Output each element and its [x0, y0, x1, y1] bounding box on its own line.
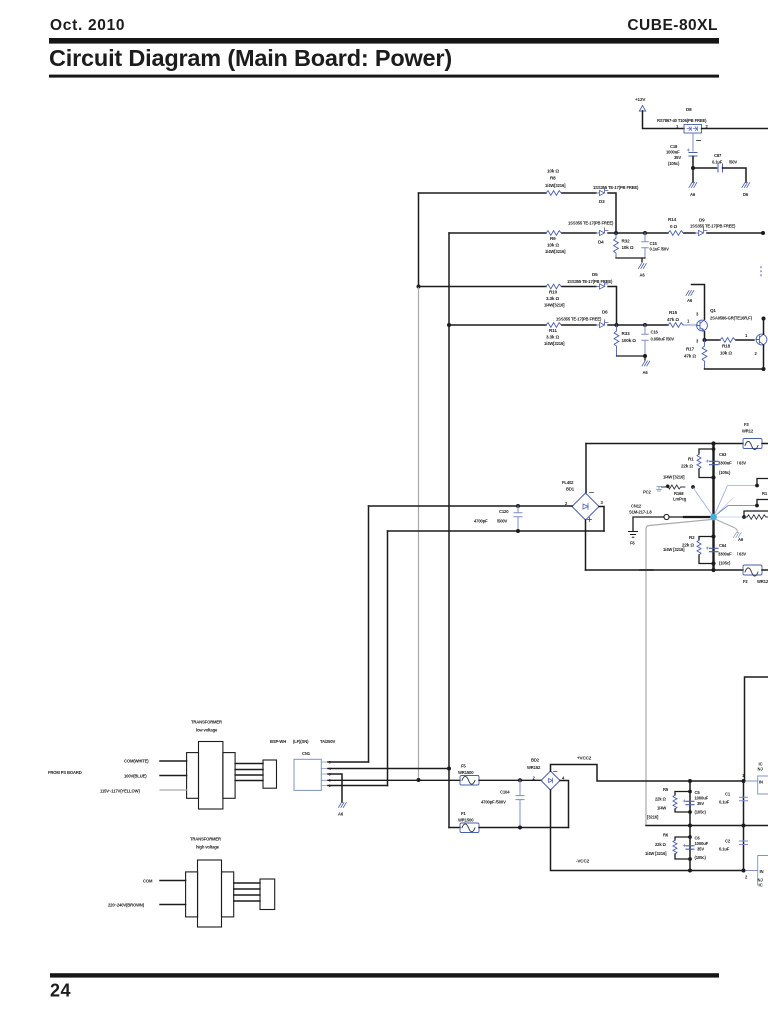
svg-text:1000uF: 1000uF	[666, 150, 680, 155]
wire vertical x449	[448, 233, 450, 828]
wire bottom bus to F2	[586, 569, 744, 571]
svg-text:low voltage: low voltage	[196, 728, 218, 733]
svg-text:C5: C5	[695, 790, 701, 795]
wire row3	[419, 286, 547, 288]
node x690 top	[688, 779, 692, 783]
svg-text:CN1: CN1	[302, 751, 311, 756]
resistor R10 3.3k	[544, 284, 565, 307]
resistor R18 10k	[720, 338, 735, 356]
node R168 left	[666, 485, 670, 489]
capacitor C63 3300uF	[706, 452, 746, 475]
svg-text:/500V: /500V	[497, 519, 508, 524]
svg-text:1/4W[3216]: 1/4W[3216]	[545, 249, 566, 254]
node R1 top	[712, 447, 716, 451]
svg-text:TRANSFORMER: TRANSFORMER	[191, 720, 222, 725]
svg-text:3: 3	[696, 339, 699, 344]
svg-text:A6: A6	[687, 298, 693, 303]
svg-text:R1: R1	[762, 491, 768, 496]
svg-text:IN: IN	[760, 869, 764, 874]
node x743 top	[742, 779, 746, 783]
transformer T2 high voltage	[186, 837, 234, 928]
svg-text:C15: C15	[650, 241, 658, 246]
svg-text:RS7867-40 T106(PB FREE): RS7867-40 T106(PB FREE)	[657, 118, 707, 123]
capacitor C104 4700pF	[481, 780, 524, 827]
wire R11 to D6	[562, 324, 596, 326]
svg-text:3.3k Ω: 3.3k Ω	[546, 335, 559, 340]
resistor R8 10k	[545, 169, 566, 196]
svg-text:F5: F5	[461, 764, 466, 769]
wire R15 to Q1 base	[684, 324, 697, 326]
node ray2	[755, 504, 759, 508]
svg-text:BD1: BD1	[566, 487, 575, 492]
svg-text:WR12: WR12	[742, 429, 754, 434]
svg-text:WR1500: WR1500	[458, 770, 474, 775]
wire junction to C87	[693, 167, 717, 169]
svg-text:IC: IC	[759, 883, 763, 888]
capacitor C16 0.056uF	[642, 325, 675, 356]
svg-text:F3: F3	[744, 422, 749, 427]
svg-text:47k Ω: 47k Ω	[684, 354, 696, 359]
svg-text:1SS355 TE-17(PB FREE): 1SS355 TE-17(PB FREE)	[568, 221, 614, 226]
svg-text:high voltage: high voltage	[196, 845, 220, 850]
svg-text:3: 3	[696, 312, 699, 317]
node Q2 top	[762, 317, 766, 321]
wires T1 secondary	[235, 764, 263, 781]
wire CN1 pin1 to left drop	[328, 761, 369, 763]
node C120 bottom	[516, 529, 520, 533]
svg-text:Oct. 2010: Oct. 2010	[50, 17, 125, 34]
node +12V	[635, 97, 646, 111]
node row3 tap	[417, 285, 421, 289]
svg-text:R8: R8	[550, 176, 556, 181]
svg-text:D8: D8	[686, 107, 692, 112]
svg-text:10k Ω: 10k Ω	[622, 245, 634, 250]
ground A6 (gray)	[734, 533, 744, 543]
resistor R32 10k (vertical)	[614, 233, 634, 258]
svg-text:R32: R32	[622, 239, 631, 244]
node rail end	[762, 367, 766, 371]
svg-text:R17: R17	[686, 347, 695, 352]
svg-text:IN: IN	[759, 780, 763, 785]
svg-text:C6: C6	[695, 836, 701, 841]
capacitor C6 1000uF	[683, 836, 709, 861]
svg-text:FL402: FL402	[562, 480, 574, 485]
svg-text:Q1: Q1	[710, 308, 716, 313]
svg-text:1/4W [3216]: 1/4W [3216]	[645, 851, 667, 856]
wire row1 (left corner, to R8)	[419, 192, 547, 194]
wire D5 corner down	[608, 287, 617, 326]
fuse F5 WR1500	[458, 764, 479, 786]
svg-text:BD2: BD2	[531, 758, 540, 763]
wire F2 to edge	[762, 569, 768, 571]
svg-text:(105c): (105c)	[695, 855, 707, 860]
svg-text:0 Ω: 0 Ω	[670, 224, 678, 229]
wire center thick bus	[712, 444, 714, 571]
IC box (edge, +VCC2 regulator)	[758, 776, 768, 794]
svg-text:(LF)(SN): (LF)(SN)	[293, 739, 309, 744]
svg-text:F6: F6	[630, 541, 635, 546]
svg-text:+VCC2: +VCC2	[577, 756, 592, 761]
svg-text:1/4W[3216]: 1/4W[3216]	[544, 341, 565, 346]
connector CN12 S1M-217-1.8	[629, 504, 669, 520]
svg-text:100V(BLUE): 100V(BLUE)	[124, 774, 147, 779]
svg-text:LmPcg: LmPcg	[673, 497, 687, 502]
ground F6	[629, 532, 638, 546]
svg-text:WR12: WR12	[757, 579, 768, 584]
wire bus x743	[743, 781, 745, 871]
svg-text:C63: C63	[719, 452, 727, 457]
resistor R9 10k	[545, 231, 566, 254]
wire vertical x419 upper	[418, 193, 420, 287]
svg-text:(105c): (105c)	[719, 561, 731, 566]
svg-text:F2: F2	[743, 579, 748, 584]
wire C18 to junction	[692, 157, 694, 169]
svg-text:0.056uF /50V: 0.056uF /50V	[651, 337, 675, 342]
wire node to C16 node	[617, 324, 646, 326]
svg-text:1: 1	[687, 319, 690, 324]
node x743 bottom	[742, 869, 746, 873]
svg-text:A6: A6	[643, 370, 649, 375]
resistor R11 3.3k	[544, 323, 565, 346]
node Q1 emitter	[703, 338, 707, 342]
wire to R14	[645, 232, 668, 234]
wire bridge pin3	[599, 507, 604, 532]
svg-text:1000uF: 1000uF	[695, 841, 709, 846]
wire C120 bottom rail	[388, 530, 605, 532]
resistor R5 22k	[647, 787, 690, 820]
ground A6 row4	[642, 356, 650, 375]
node row1/row2	[614, 231, 618, 235]
node C120 top	[516, 504, 520, 508]
svg-text:115V~117V(YELLOW): 115V~117V(YELLOW)	[100, 789, 140, 794]
svg-text:PC2: PC2	[643, 490, 652, 495]
connector housing T1	[263, 760, 277, 788]
svg-text:22k Ω: 22k Ω	[655, 842, 667, 847]
wire gray hub to center-tap drop	[646, 520, 711, 825]
svg-text:35V: 35V	[697, 847, 704, 852]
wire bottom bus repaint at gray crossing	[640, 569, 653, 571]
wire +VCC2 blue tail	[744, 780, 758, 782]
svg-text:35V: 35V	[674, 155, 681, 160]
svg-text:R5: R5	[663, 787, 669, 792]
node x690 bottom	[688, 869, 692, 873]
svg-text:D4: D4	[598, 240, 604, 245]
wire R10 to D5	[562, 286, 596, 288]
svg-text:R14: R14	[668, 217, 677, 222]
node R5 top	[688, 790, 692, 794]
wire top bus to F3	[586, 443, 743, 445]
ground A6 Q1	[686, 291, 694, 304]
svg-text:2SA0586-GR(TE16R,F): 2SA0586-GR(TE16R,F)	[710, 316, 753, 321]
wire gray hub to A6	[716, 520, 738, 533]
node R6 top	[688, 835, 692, 839]
capacitor C87 0.1uF	[712, 153, 737, 172]
net rays (blue) from hub	[693, 486, 757, 518]
svg-text:2: 2	[755, 351, 758, 356]
wire bus x690	[689, 781, 691, 871]
wire row4	[449, 324, 546, 326]
svg-text:CN12: CN12	[631, 504, 642, 509]
svg-text:C16: C16	[651, 330, 659, 335]
wire Q1 emitter to node	[704, 332, 706, 340]
svg-text:1SS355 TE-17(PB FREE): 1SS355 TE-17(PB FREE)	[556, 317, 602, 322]
wire ray2 corner (edge, y499.5)	[757, 500, 768, 506]
svg-text:(105c): (105c)	[719, 470, 731, 475]
svg-text:R10: R10	[549, 290, 558, 295]
node R2 bottom	[711, 561, 715, 565]
svg-text:0.1uF /50V: 0.1uF /50V	[650, 247, 670, 252]
capacitor C5 1000uF	[683, 790, 709, 815]
svg-text:R15: R15	[669, 310, 678, 315]
wire D9 to edge node	[707, 232, 763, 234]
wire R18 to Q2 base	[736, 339, 754, 341]
svg-text:1/4W: 1/4W	[657, 806, 666, 811]
wire bridge bottom to bus	[585, 520, 587, 570]
svg-text:C2: C2	[725, 839, 731, 844]
node R6 bottom	[688, 857, 692, 861]
svg-text:[3216]: [3216]	[647, 815, 659, 820]
ground A6 (top right)	[689, 183, 697, 198]
wire Q1 collector to ground	[692, 285, 705, 320]
fuse F3 WR12	[742, 422, 762, 450]
wire right edge corner to lower bus	[745, 677, 768, 781]
node ray1	[755, 484, 759, 488]
node R1/C63 bottom	[711, 475, 715, 479]
svg-text:R1: R1	[688, 457, 694, 462]
wire R32/C15 commons	[616, 258, 645, 262]
svg-text:C120: C120	[499, 509, 509, 514]
svg-text:10k Ω: 10k Ω	[547, 243, 559, 248]
wire CN1 pin6 to left drop2	[328, 785, 388, 787]
node C104 top	[518, 778, 522, 782]
svg-text:1SS355 TE-17(PB FREE): 1SS355 TE-17(PB FREE)	[567, 279, 613, 284]
svg-text:24: 24	[50, 981, 71, 1001]
svg-text:C18: C18	[670, 144, 678, 149]
resistor R2 22k	[663, 535, 714, 564]
svg-text:4700pF /500V: 4700pF /500V	[481, 800, 506, 805]
capacitor C64 3300uF	[706, 543, 746, 566]
wire left drop2 to CN1 pin5	[387, 531, 389, 786]
wire BD2 pin4 down	[560, 781, 569, 828]
svg-text:/ 63V: / 63V	[737, 461, 746, 466]
svg-text:10k Ω: 10k Ω	[547, 169, 559, 174]
wire x449 corner to F1	[449, 827, 460, 829]
svg-text:COM(WHITE): COM(WHITE)	[124, 759, 149, 764]
IC box (edge, -VCC2 regulator)	[758, 856, 768, 886]
svg-text:R6: R6	[663, 833, 669, 838]
wire vertical x419 gray (115V net)	[418, 287, 420, 781]
svg-text:1/4W [3216]: 1/4W [3216]	[663, 547, 685, 552]
svg-text:C104: C104	[500, 790, 510, 795]
svg-text:3300uF: 3300uF	[718, 461, 732, 466]
resistor R17 47k (vertical)	[684, 340, 707, 369]
wire bus down to bridge	[585, 444, 587, 494]
svg-text:S1M-217-1.8: S1M-217-1.8	[629, 510, 652, 515]
svg-text:R18: R18	[722, 344, 731, 349]
svg-text:22k Ω: 22k Ω	[655, 797, 667, 802]
svg-text:R9: R9	[550, 236, 556, 241]
svg-text:1SS355 TE-17(PB FREE): 1SS355 TE-17(PB FREE)	[593, 185, 639, 190]
wire to R15	[645, 324, 668, 326]
node C16 tap	[643, 323, 647, 327]
diode D6 1SS355	[556, 310, 608, 328]
resistor R168	[662, 485, 687, 502]
svg-text:COM: COM	[143, 879, 153, 884]
svg-text:1/4W [3216]: 1/4W [3216]	[663, 475, 685, 480]
ground A6 CN1	[338, 803, 346, 817]
svg-text:-VCC2: -VCC2	[576, 859, 590, 864]
svg-text:100k Ω: 100k Ω	[622, 338, 637, 343]
ground D6	[742, 183, 750, 198]
node C15 tap	[643, 231, 647, 235]
connector housing T2	[260, 879, 275, 910]
wire D6 to node	[608, 324, 617, 326]
continuation dots	[760, 267, 762, 276]
diode D8 RS7867-40	[657, 107, 709, 133]
diode D4 1SS355	[568, 221, 614, 245]
node row3/row4	[615, 323, 619, 327]
wire row2 left	[449, 232, 546, 234]
resistor (edge, unlabeled)	[744, 515, 768, 519]
node row4 tap	[447, 323, 451, 327]
svg-text:(105c): (105c)	[668, 161, 680, 166]
svg-text:BSP-WH: BSP-WH	[270, 739, 286, 744]
svg-text:D9: D9	[699, 218, 705, 223]
svg-text:R2: R2	[689, 535, 695, 540]
capacitor C2 0.1uF	[719, 839, 748, 852]
wire D4 to junction	[608, 232, 616, 234]
wire edge step y511	[744, 511, 768, 517]
wire D8 to C18	[692, 133, 694, 151]
resistor R14 0ohm	[668, 217, 683, 235]
wire CN12 to ground F6	[633, 517, 664, 531]
node C104 bottom	[518, 826, 522, 830]
svg-text:FROM PS BOARD: FROM PS BOARD	[48, 770, 82, 775]
wire +12V to D8 pin1	[643, 111, 685, 129]
wire junction down	[692, 168, 694, 182]
node R2/C64 top	[711, 534, 715, 538]
svg-text:C64: C64	[719, 543, 727, 548]
wire CN1 pin2 to x449	[328, 768, 449, 770]
wire F5 to BD2	[479, 779, 542, 781]
svg-text:0.1uF: 0.1uF	[719, 847, 730, 852]
svg-text:A6: A6	[738, 537, 744, 542]
svg-text:3300uF: 3300uF	[718, 552, 732, 557]
junction	[691, 166, 695, 170]
connector CN1 BSP-WH	[270, 739, 336, 790]
svg-text:0.1uF: 0.1uF	[719, 800, 730, 805]
svg-text:Circuit Diagram (Main Board: P: Circuit Diagram (Main Board: Power)	[49, 45, 452, 71]
svg-text:2: 2	[745, 875, 748, 880]
transformer T1 low voltage	[187, 720, 235, 810]
svg-text:3.3k Ω: 3.3k Ω	[546, 296, 559, 301]
svg-text:C87: C87	[714, 153, 722, 158]
node gray-to-bus	[417, 778, 421, 782]
node bus/C63 top	[711, 441, 715, 445]
bridge rectifier BD1 FL402	[562, 480, 604, 522]
node x690 mid	[688, 824, 692, 828]
svg-text:WR1500: WR1500	[458, 818, 474, 823]
svg-text:1000uF: 1000uF	[695, 796, 709, 801]
net hub (cyan)	[710, 514, 717, 521]
svg-text:1: 1	[745, 333, 748, 338]
wire CN1 pin4 to F5	[328, 779, 460, 781]
capacitor C120 4700pF	[474, 506, 522, 531]
resistor R33 100k (vertical)	[614, 325, 636, 356]
svg-text:(105c): (105c)	[695, 810, 707, 815]
svg-text:/50V: /50V	[729, 160, 737, 165]
transistor Q1 2SA0586	[696, 308, 753, 344]
node end row2	[761, 231, 765, 235]
svg-text:10k Ω: 10k Ω	[720, 351, 732, 356]
node resistor left	[742, 515, 746, 519]
ground A6 row2	[639, 264, 647, 278]
svg-text:47k Ω: 47k Ω	[667, 317, 679, 322]
svg-text:1/4W[3216]: 1/4W[3216]	[545, 183, 566, 188]
resistor R1 22k	[663, 449, 714, 480]
wire node to R18	[705, 339, 721, 341]
capacitor C1 0.1uF	[719, 792, 748, 805]
wire Q2 collector up	[763, 319, 765, 335]
wire R8 to D3	[562, 192, 596, 194]
svg-text:F1: F1	[461, 811, 466, 816]
svg-text:WR152: WR152	[527, 765, 541, 770]
svg-text:D3: D3	[599, 199, 605, 204]
node pin2/x449	[447, 767, 451, 771]
wire D8 pin2 right	[702, 128, 768, 130]
svg-text:A6: A6	[690, 192, 696, 197]
wire junction to junction2	[616, 232, 645, 234]
fuse F1 WR1500	[458, 811, 479, 833]
capacitor C15 0.1uF	[642, 233, 669, 258]
svg-text:3: 3	[601, 500, 604, 505]
svg-text:0.1uF: 0.1uF	[712, 160, 723, 165]
transistor Q2	[755, 334, 767, 356]
wire C87 to ground D6	[723, 168, 747, 182]
svg-text:R33: R33	[622, 331, 631, 336]
wire F3 to edge	[762, 443, 768, 445]
wire R33/C16 common	[617, 355, 646, 357]
wire C120 top rail	[369, 505, 573, 507]
bridge rectifier BD2 WR152	[527, 758, 565, 791]
capacitor C18 1000uF	[666, 144, 697, 166]
wire CN12 to hub	[669, 516, 684, 518]
wire R14 to D9	[684, 232, 695, 234]
node under C16	[643, 354, 647, 358]
wire F1 to BD2 leg	[479, 827, 569, 829]
node x743 mid	[742, 824, 746, 828]
wire CN1 pin3 to ground	[328, 774, 342, 802]
svg-text:R11: R11	[549, 328, 557, 333]
wire R9 to D4	[562, 232, 596, 234]
svg-text:D5: D5	[592, 272, 598, 277]
diode D5 1SS355	[567, 272, 613, 289]
wire left drop to CN1 pin1	[368, 506, 370, 762]
svg-text:TRANSFORMER: TRANSFORMER	[190, 837, 221, 842]
svg-text:R168: R168	[674, 491, 684, 496]
svg-text:CUBE-80XL: CUBE-80XL	[627, 17, 718, 34]
svg-text:TA/250V: TA/250V	[320, 739, 336, 744]
svg-text:220~240V(BROWN): 220~240V(BROWN)	[108, 903, 145, 908]
wire -VCC2 blue tail	[744, 870, 758, 872]
svg-text:4700pF: 4700pF	[474, 519, 488, 524]
diode D3 1SS355	[593, 185, 639, 204]
fuse F2 WR12	[743, 565, 768, 584]
wire mid rail (center tap)	[646, 825, 768, 827]
svg-text:35V: 35V	[697, 801, 704, 806]
resistor R6 22k	[645, 833, 690, 860]
svg-text:1/4W[3216]: 1/4W[3216]	[544, 303, 565, 308]
